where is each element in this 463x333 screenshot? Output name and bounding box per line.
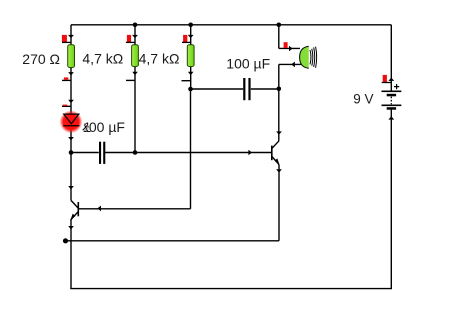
current marker flag R3 xyxy=(183,35,187,42)
junction node R3 top xyxy=(188,23,193,28)
junction node C3-Q2 collector xyxy=(277,87,282,92)
wire right rail upper (to battery +) xyxy=(390,25,392,92)
capacitor C3 plate left xyxy=(243,78,245,100)
battery B1 plus sign xyxy=(394,84,399,89)
wire right rail lower (battery - to bottom) xyxy=(390,108,392,288)
wire LED to Q1 collector xyxy=(70,126,72,201)
junction node R2 top xyxy=(133,23,138,28)
wire R3 branch upper xyxy=(190,25,192,46)
wire emitter link horizontal xyxy=(66,240,280,242)
current arrow above R3 xyxy=(188,35,194,38)
current arrow above Q2 collector xyxy=(276,131,282,135)
battery B1 cell1 long plate xyxy=(382,91,402,93)
junction node speaker top xyxy=(277,23,282,28)
speaker sound wave arc 2 xyxy=(312,49,313,66)
junction node emitters xyxy=(63,238,68,243)
probe tick below R1 xyxy=(62,79,71,81)
wire R3 node down to Q1 base xyxy=(190,89,192,209)
wire C2 left lead xyxy=(71,152,99,154)
svg-text:4,7 kΩ: 4,7 kΩ xyxy=(82,51,123,67)
battery B1 cell2 short plate xyxy=(387,107,396,110)
LED D1 glow xyxy=(60,110,83,133)
current arrow battery top (up) xyxy=(388,78,394,81)
current arrow below R1 xyxy=(68,72,74,76)
current marker flag speaker xyxy=(284,42,288,48)
current arrow above R2 xyxy=(132,35,138,38)
probe tick red bar below R1 xyxy=(64,77,68,79)
battery B1 dashed link xyxy=(390,97,392,105)
wire top rail xyxy=(71,24,391,26)
wire speaker top drop xyxy=(278,25,280,49)
probe tick above R1 xyxy=(62,41,71,43)
current arrow below Q1 emitter xyxy=(68,226,74,230)
resistor R3 body xyxy=(187,45,194,67)
current arrow below Q2 emitter xyxy=(276,169,282,173)
wire speaker top lead xyxy=(279,47,300,49)
LED D1 symbol xyxy=(63,114,79,126)
svg-text:00 µF: 00 µF xyxy=(89,119,125,135)
wire speaker bottom lead xyxy=(279,63,303,65)
speaker sound wave arc 3 xyxy=(314,47,315,67)
probe tick above R2 xyxy=(126,41,135,43)
current arrow into speaker (right) xyxy=(289,46,293,52)
probe tick above LED xyxy=(62,105,71,107)
probe tick below R3 xyxy=(182,80,191,82)
current arrow out of speaker (left) xyxy=(291,62,295,68)
wire C2 right lead to Q2 base xyxy=(105,152,272,154)
current arrow below R2 xyxy=(132,72,138,76)
svg-text:270 Ω: 270 Ω xyxy=(22,51,60,67)
current arrow below LED xyxy=(68,137,74,141)
wire R3 branch lower xyxy=(190,67,192,89)
wire Q1 base lead xyxy=(78,208,190,210)
junction node LED-C2 xyxy=(69,150,74,155)
svg-text:100 µF: 100 µF xyxy=(226,55,270,71)
capacitor C2 plate left xyxy=(99,142,101,164)
probe tick below R2 xyxy=(126,79,135,81)
resistor R2 body xyxy=(132,45,139,67)
wire R1 to LED xyxy=(70,67,72,114)
speaker sound wave arc 1 xyxy=(310,50,311,64)
current arrow below R3 xyxy=(188,72,194,76)
current arrow above LED xyxy=(68,100,74,104)
current arrow Q1 base (left) xyxy=(97,206,101,212)
probe tick above R3 xyxy=(182,41,191,43)
wire C3 right lead xyxy=(251,88,279,90)
junction node R3-C3 xyxy=(188,87,193,92)
current arrow above R1 xyxy=(68,35,74,38)
wire Q2 emitter drop xyxy=(278,165,280,241)
current arrow above Q1 collector xyxy=(68,186,74,190)
battery B1 cell1 short plate xyxy=(387,94,396,97)
wire R2 branch upper xyxy=(134,25,136,46)
serif foot of digit 1 xyxy=(84,131,88,132)
wire bottom rail xyxy=(70,288,392,290)
current arrow battery bottom (up) xyxy=(388,116,394,119)
probe tick red bar above LED xyxy=(63,105,67,106)
capacitor C3 plate right xyxy=(248,78,250,100)
wire Q1 emitter down to bottom rail xyxy=(70,219,72,289)
battery B1 cell2 long plate xyxy=(382,105,402,107)
current arrow Q2 base xyxy=(248,150,252,156)
mouse cursor glyph xyxy=(82,123,89,132)
speaker sound wave arc 4 xyxy=(316,47,317,68)
capacitor C2 plate right xyxy=(103,142,105,164)
current marker flag battery xyxy=(383,75,387,82)
wire speaker to Q2 collector xyxy=(278,64,280,140)
current marker flag R2 xyxy=(127,35,131,42)
transistor Q2 xyxy=(272,141,279,165)
svg-text:9 V: 9 V xyxy=(353,92,373,107)
resistor R1 body xyxy=(68,45,75,68)
current marker flag R1 xyxy=(62,35,67,42)
wire C3 left lead xyxy=(191,88,244,90)
svg-text:4,7 kΩ: 4,7 kΩ xyxy=(139,51,180,67)
wire R1 branch upper xyxy=(70,25,72,46)
probe tick battery xyxy=(382,82,392,84)
transistor Q1 xyxy=(71,200,78,219)
junction node C2-R2-base xyxy=(133,150,138,155)
speaker LS1 cone xyxy=(300,46,309,68)
wire R2 branch lower xyxy=(134,67,136,153)
